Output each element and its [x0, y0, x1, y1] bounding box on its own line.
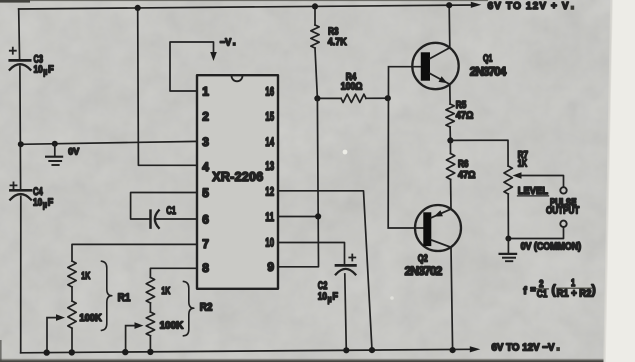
node junction dot pin12 bottom rail	[369, 347, 375, 353]
node junction dot ground tap	[52, 141, 58, 147]
node +V supply arrow	[471, 2, 482, 8]
node junction dot top rail Q1	[446, 2, 452, 8]
resistor R6 47ohm	[449, 140, 451, 153]
svg-text:6: 6	[202, 212, 209, 226]
svg-text:=: =	[530, 284, 535, 294]
transistor Q2 2N3702	[415, 205, 461, 251]
svg-text:10: 10	[33, 196, 42, 208]
svg-text:1K: 1K	[81, 271, 91, 282]
svg-text:F: F	[48, 64, 54, 76]
svg-text:9: 9	[267, 260, 274, 274]
ground 0V COMMON symbol	[507, 239, 509, 254]
svg-text:0V (COMMON): 0V (COMMON)	[521, 242, 582, 253]
wire pin 12 to bottom rail	[278, 191, 372, 350]
svg-text:F: F	[332, 291, 338, 303]
node junction dot R5-R6	[447, 137, 453, 143]
wire lower terminal to 0V common	[508, 227, 563, 239]
wire pin 7 to R1	[72, 244, 197, 261]
svg-text:R5: R5	[456, 100, 467, 111]
resistor R1a 1K	[68, 261, 76, 287]
svg-text:1K: 1K	[161, 286, 171, 297]
svg-text:R2: R2	[200, 301, 213, 313]
resistor R7 1K potentiometer	[504, 166, 512, 194]
wire base feed column	[388, 67, 423, 228]
scan artifacts (edges)	[0, 0, 488, 1]
svg-text:6V TO 12V −V: 6V TO 12V −V	[492, 343, 555, 354]
resistor R2b 100K potentiometer	[146, 312, 154, 336]
svg-text:−V: −V	[220, 38, 232, 49]
node junction dot R2 bottom	[147, 349, 153, 355]
node junction dot R2 wiper bottom	[122, 349, 128, 355]
svg-text:0V: 0V	[68, 147, 80, 158]
svg-text:1: 1	[202, 85, 209, 99]
svg-text:C1: C1	[537, 289, 548, 300]
svg-text:11: 11	[265, 210, 274, 224]
wire 0V line to pin 3	[21, 141, 197, 144]
node brace R1	[102, 261, 112, 330]
svg-text:3: 3	[202, 135, 209, 149]
svg-text:7: 7	[202, 237, 209, 251]
svg-text:2N3702: 2N3702	[405, 264, 443, 278]
svg-text:2N3704: 2N3704	[470, 65, 507, 79]
node junction dot R3-R4	[314, 95, 320, 101]
wire Q2 collector to bottom rail	[451, 247, 453, 350]
svg-text:F: F	[48, 196, 54, 208]
wire pin 8 to R2	[150, 268, 197, 277]
svg-text:6V TO 12V + V: 6V TO 12V + V	[488, 1, 569, 12]
wire junction column to pin 9	[278, 98, 319, 266]
ground 0V symbol	[54, 144, 56, 157]
svg-text:μ: μ	[43, 200, 47, 210]
svg-text:μ: μ	[328, 294, 332, 304]
svg-text:10: 10	[34, 64, 43, 76]
node junction dot 0V common	[505, 236, 511, 242]
resistor R5 47ohm	[449, 84, 451, 104]
wire R5R6 junction to R7	[450, 140, 508, 166]
capacitor C4	[10, 189, 31, 192]
resistor R1b 100K potentiometer	[68, 301, 76, 328]
wire C2 to bottom rail	[345, 274, 347, 350]
node -Vs arrow	[210, 52, 217, 61]
wire pin 1 to -Vs arrow loop	[170, 42, 214, 91]
svg-text:100K: 100K	[79, 313, 102, 324]
svg-text:100K: 100K	[160, 320, 184, 331]
svg-text:XR-2206: XR-2206	[212, 170, 263, 184]
svg-text:13: 13	[265, 159, 274, 173]
node junction dot C2 bottom rail	[343, 347, 349, 353]
capacitor C3	[10, 59, 30, 62]
wire R2 wiper	[135, 322, 144, 329]
wire C1 to pin 6	[157, 218, 198, 220]
node junction dot R4-base line	[385, 95, 391, 101]
wire Q1 collector to top rail	[448, 5, 451, 48]
wire top supply rail	[19, 5, 473, 9]
white page margin right	[605, 0, 635, 362]
node output terminal lower	[560, 221, 566, 227]
node junction dot left rail 0V	[18, 141, 24, 147]
svg-text:μ: μ	[43, 67, 47, 77]
wire pin 10 to C2	[278, 243, 345, 265]
node brace R2	[184, 281, 194, 335]
svg-text:1K: 1K	[518, 158, 528, 169]
op-amp U1 XR-2206 IC body	[197, 75, 278, 289]
svg-text:10: 10	[265, 236, 274, 250]
resistor R2a 1K	[146, 277, 154, 303]
capacitor C1	[149, 211, 152, 228]
svg-text:5: 5	[202, 186, 209, 200]
resistor R3 4.7K	[314, 6, 316, 25]
wire pin 11 tap	[278, 216, 318, 218]
svg-text:15: 15	[265, 110, 274, 124]
capacitor C2	[336, 264, 355, 267]
svg-text:C1: C1	[166, 205, 176, 217]
svg-text:1: 1	[571, 278, 576, 289]
node -V supply arrow	[470, 346, 481, 352]
svg-text:R1: R1	[118, 292, 131, 304]
svg-text:47Ω: 47Ω	[458, 170, 476, 181]
node junction dot top rail pin4 feed	[135, 5, 141, 11]
svg-text:10: 10	[318, 291, 327, 303]
node junction dot top rail R3	[312, 3, 318, 9]
wire +V rail down to pin 4	[138, 8, 197, 165]
svg-text:OUTPUT: OUTPUT	[546, 206, 579, 217]
node junction dot bottom rail Q2	[450, 347, 456, 353]
svg-text:16: 16	[265, 85, 274, 99]
wire R1 wiper	[56, 314, 65, 321]
node junction dot R1 bottom	[69, 349, 75, 355]
svg-text:47Ω: 47Ω	[456, 111, 474, 122]
wire bottom supply rail	[21, 349, 471, 353]
svg-text:100Ω: 100Ω	[341, 82, 363, 93]
svg-text:4: 4	[202, 160, 209, 174]
node junction dot R1 wiper bottom	[44, 349, 50, 355]
svg-text:2: 2	[202, 110, 209, 124]
svg-text:Q1: Q1	[483, 54, 493, 65]
svg-text:R1 + R2: R1 + R2	[557, 289, 592, 300]
node output terminal upper	[560, 187, 566, 193]
svg-text:14: 14	[265, 135, 274, 149]
transistor Q1 2N3704	[412, 43, 458, 89]
svg-text:12: 12	[265, 184, 274, 198]
wire pin 5 loop to C1	[131, 193, 197, 220]
svg-text:): )	[592, 283, 596, 297]
resistor R4 100ohm	[317, 97, 341, 99]
svg-text:8: 8	[202, 261, 209, 275]
wire left vertical rail	[19, 9, 21, 353]
wire R7 wiper to output	[513, 172, 522, 179]
svg-text:R6: R6	[458, 159, 469, 170]
node junction dot pin 11	[315, 213, 321, 219]
svg-text:4.7K: 4.7K	[328, 37, 348, 48]
